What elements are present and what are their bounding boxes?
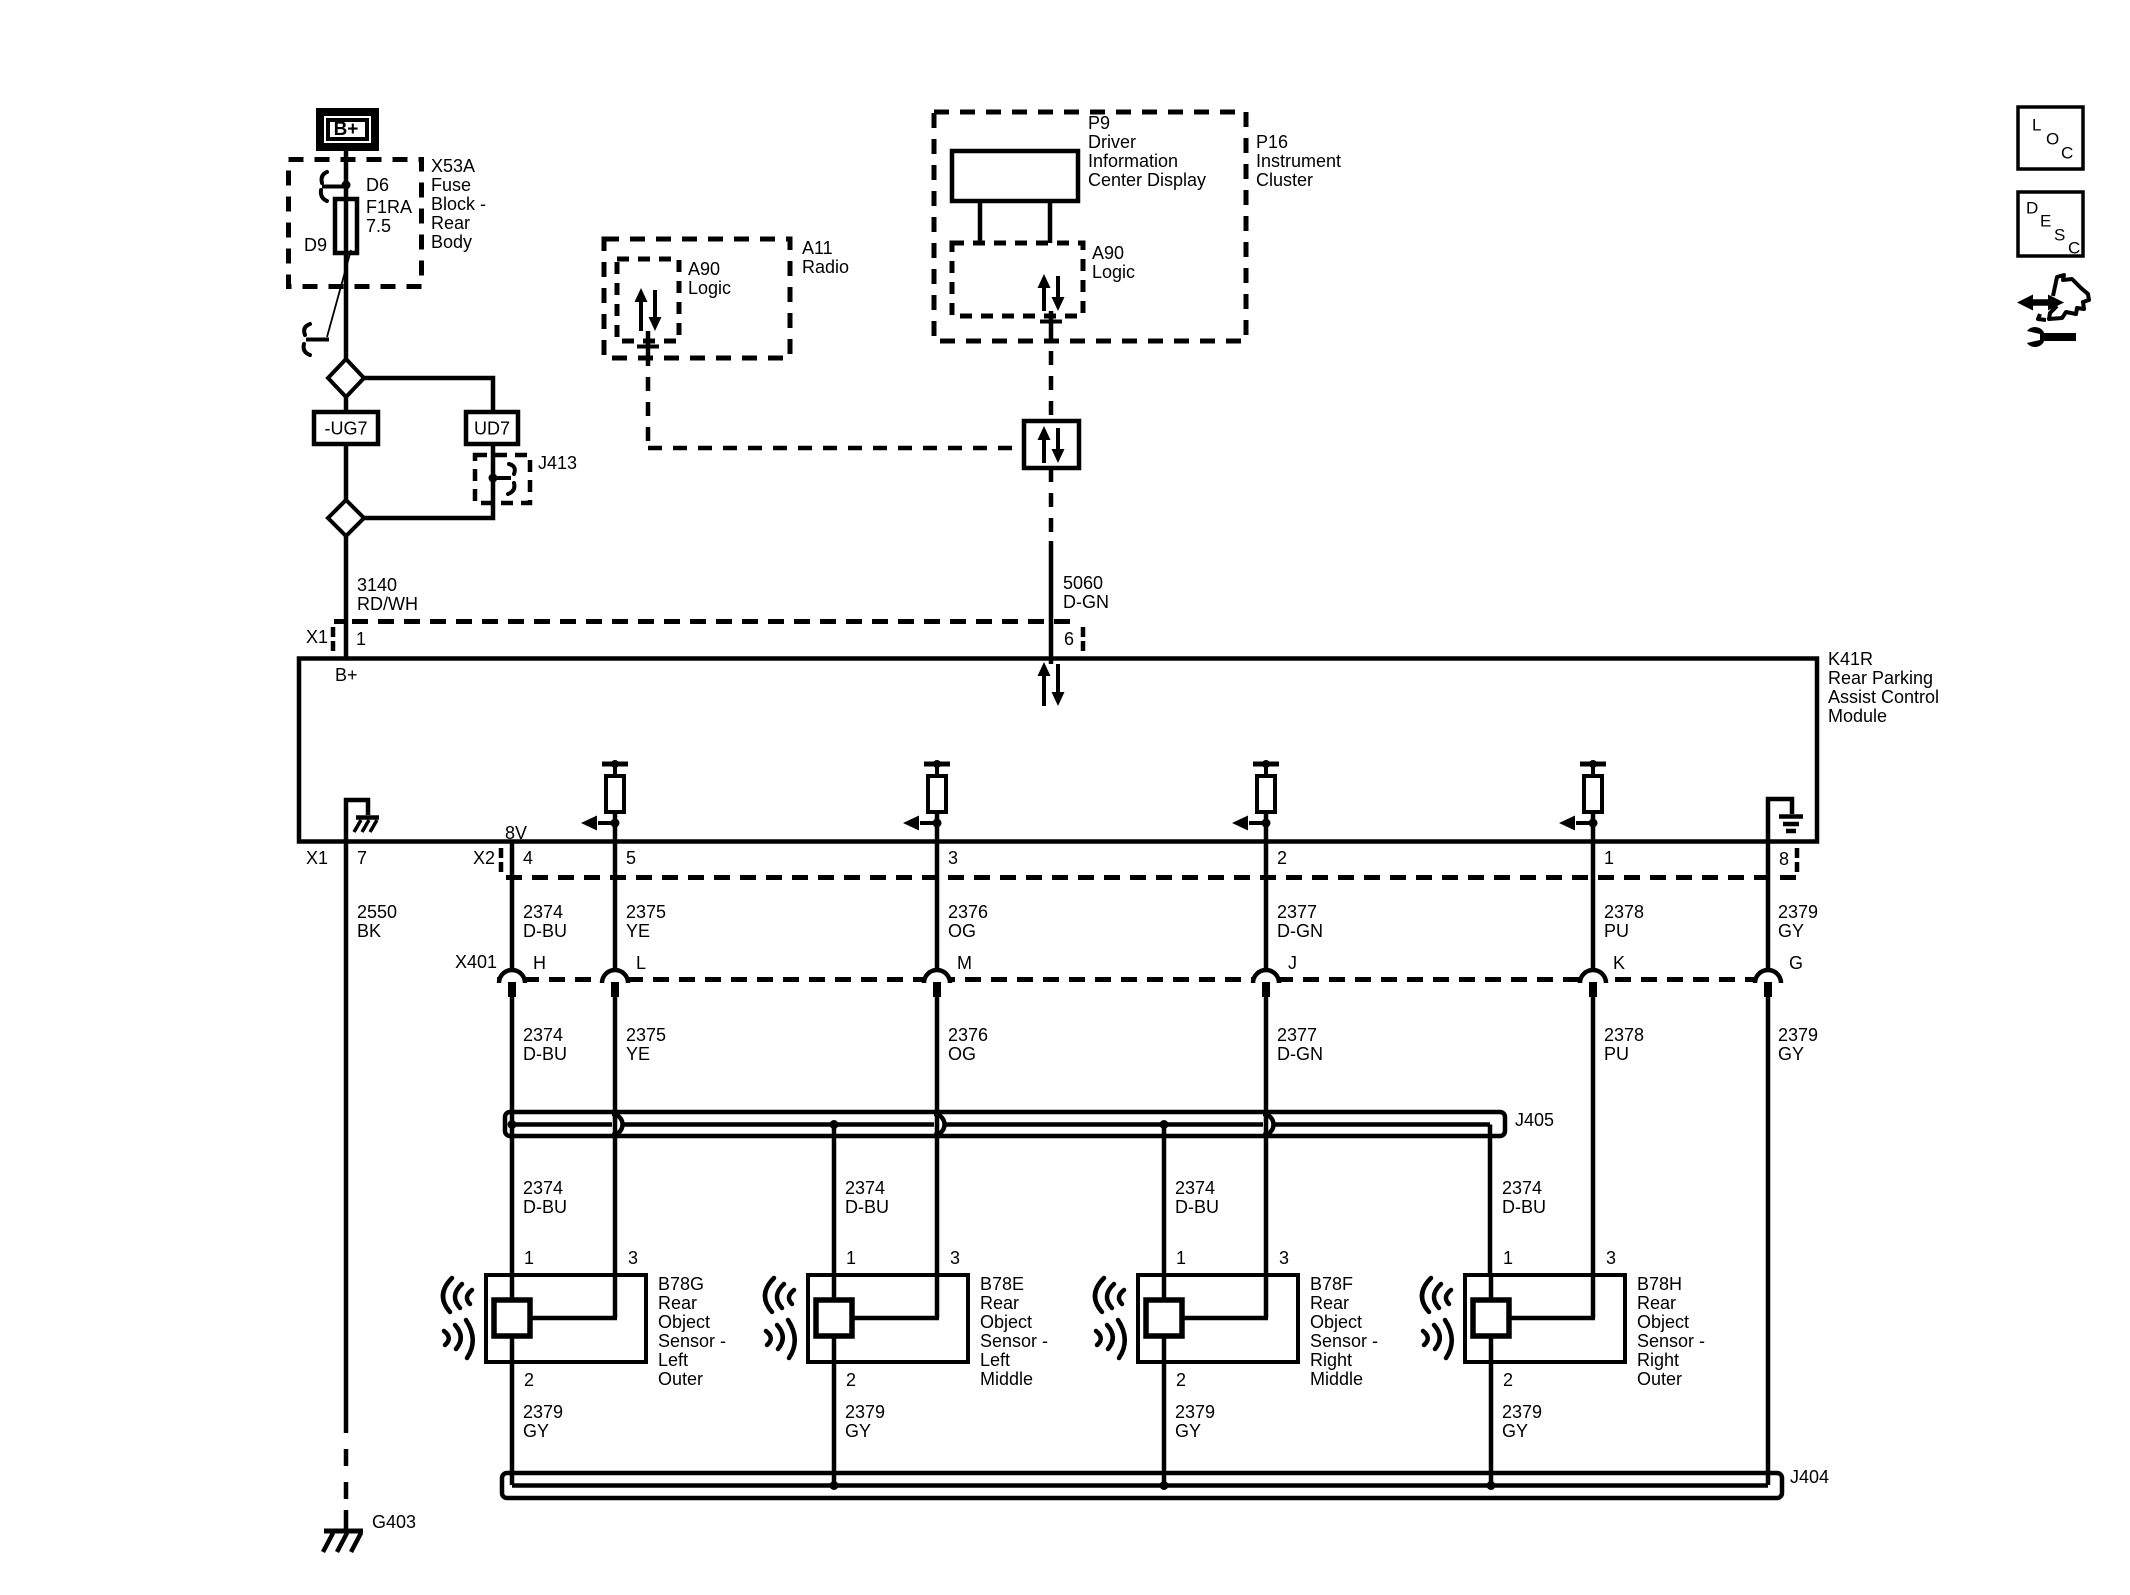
svg-text:6: 6: [1064, 629, 1074, 649]
svg-text:GY: GY: [845, 1421, 871, 1441]
svg-text:Block -: Block -: [431, 194, 486, 214]
svg-text:Information: Information: [1088, 151, 1178, 171]
svg-text:2378: 2378: [1604, 1025, 1644, 1045]
svg-text:B+: B+: [335, 665, 358, 685]
svg-text:Radio: Radio: [802, 257, 849, 277]
svg-text:J: J: [1288, 953, 1297, 973]
svg-text:D-BU: D-BU: [1175, 1197, 1219, 1217]
svg-text:Object: Object: [1310, 1312, 1362, 1332]
svg-text:2550: 2550: [357, 902, 397, 922]
svg-text:X1: X1: [306, 627, 328, 647]
svg-text:Logic: Logic: [1092, 262, 1135, 282]
svg-text:2377: 2377: [1277, 1025, 1317, 1045]
svg-text:7.5: 7.5: [366, 216, 391, 236]
svg-text:D-BU: D-BU: [523, 921, 567, 941]
svg-text:B+: B+: [334, 119, 359, 140]
svg-text:1: 1: [356, 629, 366, 649]
svg-text:P16: P16: [1256, 132, 1288, 152]
svg-text:D-GN: D-GN: [1277, 921, 1323, 941]
svg-text:Right: Right: [1637, 1350, 1679, 1370]
svg-text:2375: 2375: [626, 902, 666, 922]
svg-text:8: 8: [1779, 849, 1789, 869]
svg-text:G: G: [1789, 953, 1803, 973]
svg-text:J404: J404: [1790, 1467, 1829, 1487]
svg-text:2379: 2379: [1778, 1025, 1818, 1045]
svg-text:1: 1: [1503, 1248, 1513, 1268]
svg-text:F1RA: F1RA: [366, 197, 412, 217]
svg-text:Left: Left: [658, 1350, 688, 1370]
svg-text:C: C: [2068, 238, 2080, 257]
svg-text:S: S: [2054, 225, 2065, 244]
svg-text:M: M: [957, 953, 972, 973]
svg-text:O: O: [2046, 129, 2059, 148]
svg-text:GY: GY: [1175, 1421, 1201, 1441]
svg-text:GY: GY: [1778, 921, 1804, 941]
svg-text:C: C: [2061, 143, 2073, 162]
svg-text:4: 4: [523, 848, 533, 868]
svg-text:Sensor -: Sensor -: [658, 1331, 726, 1351]
svg-text:2374: 2374: [523, 1025, 563, 1045]
svg-text:2: 2: [1176, 1370, 1186, 1390]
svg-text:Body: Body: [431, 232, 472, 252]
svg-text:H: H: [533, 953, 546, 973]
svg-text:D6: D6: [366, 175, 389, 195]
svg-text:3: 3: [948, 848, 958, 868]
svg-text:2379: 2379: [1502, 1402, 1542, 1422]
svg-text:L: L: [636, 953, 646, 973]
svg-text:Instrument: Instrument: [1256, 151, 1341, 171]
svg-text:B78G: B78G: [658, 1274, 704, 1294]
svg-text:2374: 2374: [523, 1178, 563, 1198]
svg-text:OG: OG: [948, 921, 976, 941]
svg-text:GY: GY: [1502, 1421, 1528, 1441]
svg-text:D9: D9: [304, 235, 327, 255]
svg-text:Rear: Rear: [658, 1293, 697, 1313]
svg-text:1: 1: [1176, 1248, 1186, 1268]
svg-text:3: 3: [1279, 1248, 1289, 1268]
svg-text:G403: G403: [372, 1512, 416, 1532]
svg-text:3140: 3140: [357, 575, 397, 595]
svg-text:D-BU: D-BU: [1502, 1197, 1546, 1217]
svg-text:D-BU: D-BU: [523, 1197, 567, 1217]
svg-text:2379: 2379: [1778, 902, 1818, 922]
svg-text:A11: A11: [802, 238, 833, 258]
svg-text:D-BU: D-BU: [845, 1197, 889, 1217]
svg-text:5: 5: [626, 848, 636, 868]
svg-text:2: 2: [846, 1370, 856, 1390]
svg-text:YE: YE: [626, 1044, 650, 1064]
svg-text:3: 3: [628, 1248, 638, 1268]
svg-text:Rear: Rear: [1310, 1293, 1349, 1313]
svg-text:2377: 2377: [1277, 902, 1317, 922]
svg-text:7: 7: [357, 848, 367, 868]
svg-text:D-GN: D-GN: [1277, 1044, 1323, 1064]
svg-text:2374: 2374: [845, 1178, 885, 1198]
svg-text:2374: 2374: [1502, 1178, 1542, 1198]
svg-text:Object: Object: [1637, 1312, 1689, 1332]
svg-text:Object: Object: [980, 1312, 1032, 1332]
svg-text:A90: A90: [688, 259, 720, 279]
svg-text:1: 1: [524, 1248, 534, 1268]
svg-text:UD7: UD7: [474, 419, 510, 439]
svg-text:J405: J405: [1515, 1110, 1554, 1130]
svg-text:Module: Module: [1828, 706, 1887, 726]
svg-text:X401: X401: [455, 952, 497, 972]
svg-text:E: E: [2040, 211, 2051, 230]
svg-text:Sensor -: Sensor -: [980, 1331, 1048, 1351]
svg-text:PU: PU: [1604, 1044, 1629, 1064]
svg-text:X53A: X53A: [431, 156, 475, 176]
svg-text:Left: Left: [980, 1350, 1010, 1370]
svg-text:GY: GY: [1778, 1044, 1804, 1064]
svg-text:2: 2: [1277, 848, 1287, 868]
svg-text:Sensor -: Sensor -: [1637, 1331, 1705, 1351]
svg-text:Middle: Middle: [1310, 1369, 1363, 1389]
svg-text:Rear Parking: Rear Parking: [1828, 668, 1933, 688]
svg-text:2: 2: [524, 1370, 534, 1390]
svg-text:2379: 2379: [1175, 1402, 1215, 1422]
svg-text:X2: X2: [473, 848, 495, 868]
svg-text:2376: 2376: [948, 902, 988, 922]
svg-text:2379: 2379: [845, 1402, 885, 1422]
svg-text:Right: Right: [1310, 1350, 1352, 1370]
svg-text:L: L: [2032, 115, 2041, 134]
svg-text:2378: 2378: [1604, 902, 1644, 922]
svg-text:Cluster: Cluster: [1256, 170, 1313, 190]
svg-text:Rear: Rear: [980, 1293, 1019, 1313]
svg-text:BK: BK: [357, 921, 381, 941]
svg-text:Logic: Logic: [688, 278, 731, 298]
svg-text:Middle: Middle: [980, 1369, 1033, 1389]
svg-text:Outer: Outer: [658, 1369, 703, 1389]
svg-text:Rear: Rear: [431, 213, 470, 233]
svg-text:D-GN: D-GN: [1063, 592, 1109, 612]
svg-text:A90: A90: [1092, 243, 1124, 263]
svg-text:B78E: B78E: [980, 1274, 1024, 1294]
svg-text:2376: 2376: [948, 1025, 988, 1045]
svg-text:Outer: Outer: [1637, 1369, 1682, 1389]
svg-text:K41R: K41R: [1828, 649, 1873, 669]
svg-text:2: 2: [1503, 1370, 1513, 1390]
svg-text:2375: 2375: [626, 1025, 666, 1045]
svg-text:Sensor -: Sensor -: [1310, 1331, 1378, 1351]
svg-text:X1: X1: [306, 848, 328, 868]
svg-text:D: D: [2026, 198, 2038, 217]
svg-text:Object: Object: [658, 1312, 710, 1332]
svg-text:B78H: B78H: [1637, 1274, 1682, 1294]
svg-text:B78F: B78F: [1310, 1274, 1353, 1294]
svg-text:OG: OG: [948, 1044, 976, 1064]
svg-text:GY: GY: [523, 1421, 549, 1441]
svg-text:K: K: [1613, 953, 1625, 973]
svg-text:Rear: Rear: [1637, 1293, 1676, 1313]
svg-text:2374: 2374: [1175, 1178, 1215, 1198]
svg-text:P9: P9: [1088, 113, 1110, 133]
svg-text:5060: 5060: [1063, 573, 1103, 593]
svg-text:1: 1: [1604, 848, 1614, 868]
svg-text:RD/WH: RD/WH: [357, 594, 418, 614]
svg-text:D-BU: D-BU: [523, 1044, 567, 1064]
svg-text:YE: YE: [626, 921, 650, 941]
svg-text:3: 3: [950, 1248, 960, 1268]
svg-text:Fuse: Fuse: [431, 175, 471, 195]
svg-text:2379: 2379: [523, 1402, 563, 1422]
svg-text:8V: 8V: [505, 823, 527, 843]
svg-text:Driver: Driver: [1088, 132, 1136, 152]
svg-text:-UG7: -UG7: [324, 419, 367, 439]
svg-text:3: 3: [1606, 1248, 1616, 1268]
svg-text:J413: J413: [538, 453, 577, 473]
svg-text:1: 1: [846, 1248, 856, 1268]
svg-text:Center Display: Center Display: [1088, 170, 1206, 190]
svg-text:Assist Control: Assist Control: [1828, 687, 1939, 707]
svg-text:PU: PU: [1604, 921, 1629, 941]
svg-text:2374: 2374: [523, 902, 563, 922]
